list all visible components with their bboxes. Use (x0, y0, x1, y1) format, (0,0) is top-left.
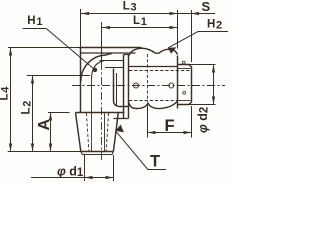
washer face right / nut left face (128, 56, 130, 119)
L3/S dimension line (81, 13, 215, 15)
washer face left (123, 55, 125, 119)
neck-to-boss intersection line (116, 73, 118, 107)
body top edge (79, 47, 142, 49)
male thread stub outline (178, 65, 192, 105)
L3 left extension line (80, 9, 82, 48)
svg-text:F: F (165, 117, 175, 135)
svg-text:H2: H2 (207, 19, 222, 32)
body left edge (80, 48, 82, 113)
svg-text:A: A (36, 119, 53, 131)
leader H2 (168, 32, 228, 48)
arrowheads F (148, 131, 156, 134)
leader H1 (23, 29, 95, 70)
svg-text:S: S (202, 0, 211, 14)
elbow inner corner: right side and fillet to washer (114, 69, 129, 107)
thread start circle lower (183, 91, 186, 94)
taper thread bottom edge (81, 151, 114, 153)
arrowheads A (49, 113, 52, 121)
taper thread right edge (113, 113, 118, 152)
phi-d1 extension lines (85, 155, 114, 181)
phi-d1 dimension line (31, 177, 114, 179)
hex chamfer circle left (134, 83, 139, 88)
centerline horizontal axis (72, 85, 225, 87)
washer top and bottom edges (114, 55, 129, 119)
svg-text:H1: H1 (27, 15, 42, 28)
centerline vertical leg axis (101, 62, 103, 160)
extension line thread end top (191, 10, 193, 62)
L4 dimension line (10, 48, 12, 152)
leader T (116, 131, 167, 170)
arrowheads L4 (9, 48, 12, 56)
svg-text:L2: L2 (21, 101, 34, 115)
svg-text:φ d2: φ d2 (196, 107, 211, 133)
arrowheads L3 (81, 12, 89, 15)
L1 dimension line (102, 27, 178, 29)
arrowhead H2 leader (168, 47, 176, 53)
H1 leader dot (93, 68, 97, 72)
thread root hidden line lower (129, 100, 177, 102)
L2 dimension line (32, 76, 34, 152)
hex nut top silhouette (corner-up, chamfer arcs and centre notch) (129, 48, 178, 56)
phi-d2 dimension line (213, 65, 215, 105)
arrowheads L2 (31, 76, 34, 84)
taper thread root hidden right (106, 113, 109, 152)
bore line left (91, 79, 93, 152)
thread start circle upper (182, 61, 185, 64)
taper thread end chamfer (81, 152, 114, 155)
arrowhead S (outside left-pointing) (191, 12, 199, 15)
arrowhead T leader (116, 125, 124, 133)
svg-text:L3: L3 (123, 1, 137, 14)
hex chamfer circle right (169, 83, 174, 88)
svg-text:T: T (150, 152, 160, 170)
thread crest line lower (178, 100, 191, 102)
arrowheads L1 (102, 26, 110, 29)
inner miter arc (bore to neck transition) (92, 61, 105, 79)
bore line right (104, 113, 106, 152)
elbow miter bend curve (81, 53, 112, 81)
thread root hidden line upper (129, 70, 190, 72)
hidden internal face in nut (F datum) (147, 54, 149, 102)
hex nut right face (177, 56, 179, 109)
L1 extension line (leg centre) (101, 22, 103, 62)
hex nut bottom silhouette (128, 101, 177, 109)
L2 extension line top (27, 75, 90, 77)
L4 top extension line (8, 47, 80, 49)
phi-d2 extension lines (186, 65, 216, 105)
A top extension line (48, 112, 70, 114)
taper thread root hidden left (86, 113, 89, 152)
extension line thread end bottom (F right) (191, 106, 193, 138)
bottom extension line (8, 151, 81, 153)
arrowheads phi-d1 (85, 176, 93, 179)
svg-text:φ d1: φ d1 (57, 165, 84, 180)
arrowheads phi-d2 (212, 65, 215, 73)
hex flat boundary line (129, 66, 178, 68)
F dimension line (148, 132, 192, 134)
neck shoulder line 1 (100, 60, 124, 62)
A dimension line (50, 113, 52, 152)
extension line F left (147, 104, 149, 138)
taper thread left edge (76, 113, 81, 152)
taper thread top edge (76, 112, 125, 114)
elbow boss top silhouette line (81, 52, 136, 54)
neck shoulder line 2 (105, 67, 124, 69)
thread crest line upper (178, 68, 191, 70)
svg-text:L4: L4 (0, 86, 12, 101)
svg-text:L1: L1 (133, 15, 147, 28)
extension line hex right face (177, 10, 179, 49)
